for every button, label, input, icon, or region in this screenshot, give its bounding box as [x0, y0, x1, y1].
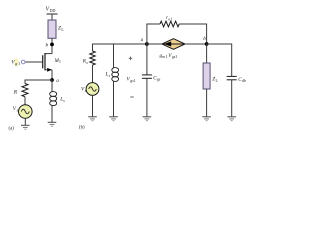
wire gate — [25, 61, 43, 63]
wire R to Vs — [24, 97, 26, 105]
svg-text:DD: DD — [50, 8, 56, 13]
wire Cdb to ground — [231, 80, 233, 117]
inductor Ls (a) — [50, 92, 57, 106]
svg-text:1: 1 — [18, 61, 20, 66]
label V_DD — [46, 7, 56, 14]
ground ZL (b) — [202, 117, 211, 121]
resistor ZL (a) — [48, 20, 56, 38]
wire Ls to ground (b) — [113, 81, 115, 116]
ground Vs (b) — [88, 117, 97, 121]
svg-text:1: 1 — [59, 60, 61, 64]
label ZL (b) — [212, 77, 218, 83]
wire top rail left — [93, 44, 147, 51]
wire Vs to ground (b) — [92, 95, 94, 116]
wire ZL to drain — [51, 38, 53, 53]
resistor ro1 — [160, 21, 179, 27]
svg-text:db: db — [242, 79, 246, 83]
svg-text:g: g — [15, 61, 17, 66]
terminal Vg1 — [21, 60, 25, 64]
resistor Rs — [90, 51, 95, 65]
resistor R — [22, 84, 28, 97]
wire ro1 to node b — [179, 24, 206, 44]
wire rail to Ls (b) — [113, 44, 115, 68]
label ro1 — [166, 16, 173, 21]
svg-text:(b): (b) — [79, 125, 85, 130]
wire node a to Ls — [51, 80, 53, 92]
capacitor Cdb — [227, 76, 237, 79]
VDD supply bar — [47, 13, 58, 15]
node b (b) — [205, 42, 209, 46]
transistor M1 — [43, 53, 52, 80]
ground Ls (a) — [48, 122, 57, 126]
label Cdb — [238, 77, 246, 83]
wire Cgs to ground — [146, 78, 148, 117]
node b (a) — [50, 43, 54, 47]
label Cgs — [153, 75, 161, 81]
ground Cdb — [227, 117, 236, 121]
wire Ls to ground — [51, 106, 53, 122]
ground Cgs — [143, 117, 152, 121]
capacitor Cgs — [142, 75, 152, 78]
label ZL (a) — [58, 26, 64, 33]
wire Vs to ground — [24, 118, 26, 125]
label M1 — [54, 58, 62, 64]
wire node a to gm source — [147, 43, 162, 45]
svg-text:a: a — [141, 37, 144, 43]
label gm1 vgs1 — [160, 53, 178, 59]
svg-text:1: 1 — [175, 55, 177, 59]
source Vs (a) — [19, 105, 33, 119]
svg-text:R: R — [13, 89, 18, 95]
source Vs (b) — [86, 83, 99, 96]
label Ls (a) — [59, 97, 65, 103]
label Rs — [82, 59, 89, 65]
svg-text:b: b — [203, 36, 206, 42]
node a (a) — [50, 78, 54, 82]
wire Rs to Vs — [92, 65, 94, 83]
svg-text:1: 1 — [134, 79, 136, 83]
wire ro1 loop — [147, 24, 160, 44]
wire node a to R branch — [25, 80, 52, 84]
dependent source gm1 vgs1 — [162, 39, 185, 50]
label Vs (a) — [13, 106, 19, 112]
wire gm source to node b — [185, 43, 207, 45]
svg-text:a: a — [56, 78, 59, 84]
svg-text:b: b — [46, 43, 49, 49]
label vgs1 — [127, 77, 136, 83]
ground Ls (b) — [109, 117, 118, 121]
label Ls (b) — [105, 72, 111, 78]
wire node a to Cgs — [146, 44, 148, 75]
wire ZL to ground (b) — [206, 89, 208, 117]
svg-text:gs: gs — [157, 78, 161, 82]
ground Vs (a) — [21, 125, 30, 129]
label Vg1 — [11, 59, 20, 66]
inductor Ls (b) — [112, 68, 119, 82]
node a (b) — [145, 42, 149, 46]
highlight on subscript g — [15, 59, 19, 66]
plus sign vgs1 — [129, 57, 133, 61]
label Vs (b) — [81, 87, 87, 93]
wire node b to Cdb — [207, 44, 232, 76]
svg-text:(a): (a) — [9, 126, 15, 131]
svg-text:1: 1 — [171, 17, 173, 21]
wire VDD to ZL — [51, 14, 53, 20]
resistor ZL (b) — [203, 63, 210, 89]
minus sign vgs1 — [130, 96, 134, 98]
wire node b to ZL (b) — [206, 44, 208, 63]
